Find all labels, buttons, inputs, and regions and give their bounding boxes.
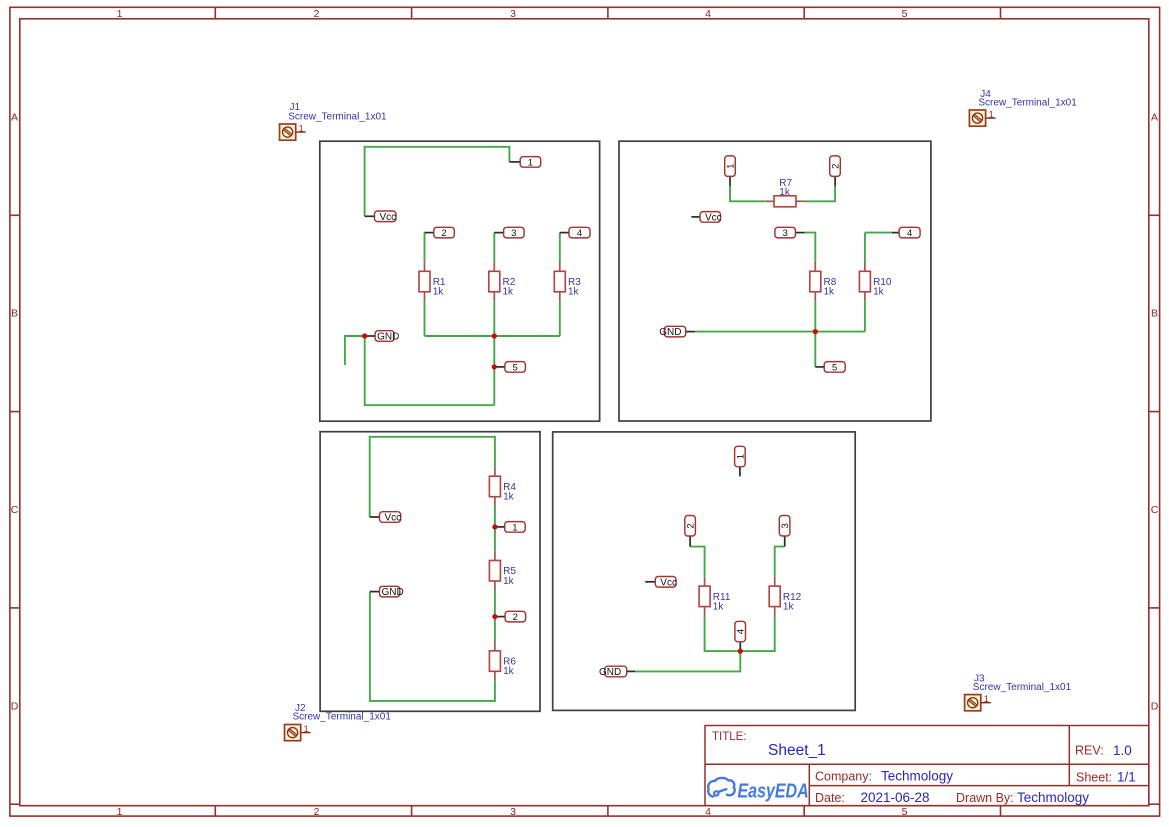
svg-text:Vcc: Vcc bbox=[705, 213, 722, 224]
svg-text:D: D bbox=[1151, 700, 1159, 712]
svg-text:2: 2 bbox=[830, 164, 841, 169]
svg-text:Screw_Terminal_1x01: Screw_Terminal_1x01 bbox=[978, 97, 1077, 108]
svg-text:1k: 1k bbox=[713, 602, 725, 613]
svg-text:3: 3 bbox=[780, 523, 791, 528]
svg-text:Sheet:: Sheet: bbox=[1076, 771, 1112, 785]
svg-text:B: B bbox=[1151, 308, 1158, 320]
svg-text:1k: 1k bbox=[783, 602, 795, 613]
svg-text:2021-06-28: 2021-06-28 bbox=[861, 790, 930, 805]
svg-text:1k: 1k bbox=[873, 287, 885, 298]
svg-text:4: 4 bbox=[577, 228, 582, 239]
svg-text:1k: 1k bbox=[503, 666, 515, 677]
svg-text:1: 1 bbox=[117, 8, 123, 20]
svg-text:2: 2 bbox=[686, 523, 697, 528]
svg-text:A: A bbox=[1151, 111, 1158, 123]
svg-text:3: 3 bbox=[511, 228, 516, 239]
svg-text:Techmology: Techmology bbox=[881, 769, 953, 784]
svg-text:5: 5 bbox=[512, 362, 517, 373]
svg-text:Screw_Terminal_1x01: Screw_Terminal_1x01 bbox=[293, 712, 392, 723]
svg-text:3: 3 bbox=[782, 228, 787, 239]
svg-text:1k: 1k bbox=[503, 287, 515, 298]
svg-text:1: 1 bbox=[725, 164, 736, 169]
svg-text:Vcc: Vcc bbox=[660, 577, 677, 588]
svg-text:GND: GND bbox=[382, 587, 404, 598]
svg-text:A: A bbox=[11, 111, 18, 123]
svg-text:2: 2 bbox=[441, 228, 446, 239]
svg-text:TITLE:: TITLE: bbox=[712, 731, 747, 743]
svg-text:C: C bbox=[11, 504, 19, 516]
svg-text:1: 1 bbox=[528, 157, 533, 168]
svg-text:GND: GND bbox=[599, 667, 621, 678]
svg-text:1.0: 1.0 bbox=[1113, 743, 1132, 758]
svg-text:4: 4 bbox=[705, 806, 711, 818]
svg-text:2: 2 bbox=[314, 8, 320, 20]
svg-text:4: 4 bbox=[736, 629, 747, 634]
svg-text:2: 2 bbox=[513, 612, 518, 623]
svg-text:1k: 1k bbox=[433, 287, 445, 298]
svg-text:5: 5 bbox=[902, 8, 908, 20]
svg-text:B: B bbox=[11, 308, 18, 320]
svg-text:Techmology: Techmology bbox=[1017, 790, 1089, 805]
svg-text:Screw_Terminal_1x01: Screw_Terminal_1x01 bbox=[288, 111, 387, 122]
svg-text:2: 2 bbox=[314, 806, 320, 818]
svg-text:Company:: Company: bbox=[815, 770, 872, 784]
svg-text:REV:: REV: bbox=[1075, 744, 1104, 758]
svg-text:4: 4 bbox=[907, 228, 912, 239]
svg-text:EasyEDA: EasyEDA bbox=[738, 780, 809, 802]
svg-text:C: C bbox=[1151, 504, 1159, 516]
svg-text:1: 1 bbox=[117, 806, 123, 818]
svg-text:Drawn By:: Drawn By: bbox=[956, 791, 1014, 805]
svg-text:1k: 1k bbox=[503, 576, 515, 587]
svg-text:1: 1 bbox=[735, 454, 746, 459]
svg-text:1k: 1k bbox=[824, 287, 836, 298]
svg-text:Date:: Date: bbox=[815, 791, 845, 805]
svg-text:1/1: 1/1 bbox=[1117, 770, 1136, 785]
svg-text:5: 5 bbox=[902, 806, 908, 818]
svg-text:5: 5 bbox=[832, 362, 837, 373]
svg-text:4: 4 bbox=[705, 8, 711, 20]
svg-text:1k: 1k bbox=[779, 187, 791, 198]
svg-text:D: D bbox=[11, 700, 19, 712]
svg-text:Vcc: Vcc bbox=[380, 212, 397, 223]
svg-text:Sheet_1: Sheet_1 bbox=[768, 742, 826, 759]
svg-text:1k: 1k bbox=[568, 287, 580, 298]
svg-text:3: 3 bbox=[510, 8, 516, 20]
svg-text:1k: 1k bbox=[503, 492, 515, 503]
svg-text:GND: GND bbox=[659, 327, 681, 338]
svg-text:3: 3 bbox=[510, 806, 516, 818]
svg-text:1: 1 bbox=[512, 522, 517, 533]
svg-text:GND: GND bbox=[377, 332, 399, 343]
svg-text:Screw_Terminal_1x01: Screw_Terminal_1x01 bbox=[973, 682, 1072, 693]
svg-text:Vcc: Vcc bbox=[385, 513, 402, 524]
